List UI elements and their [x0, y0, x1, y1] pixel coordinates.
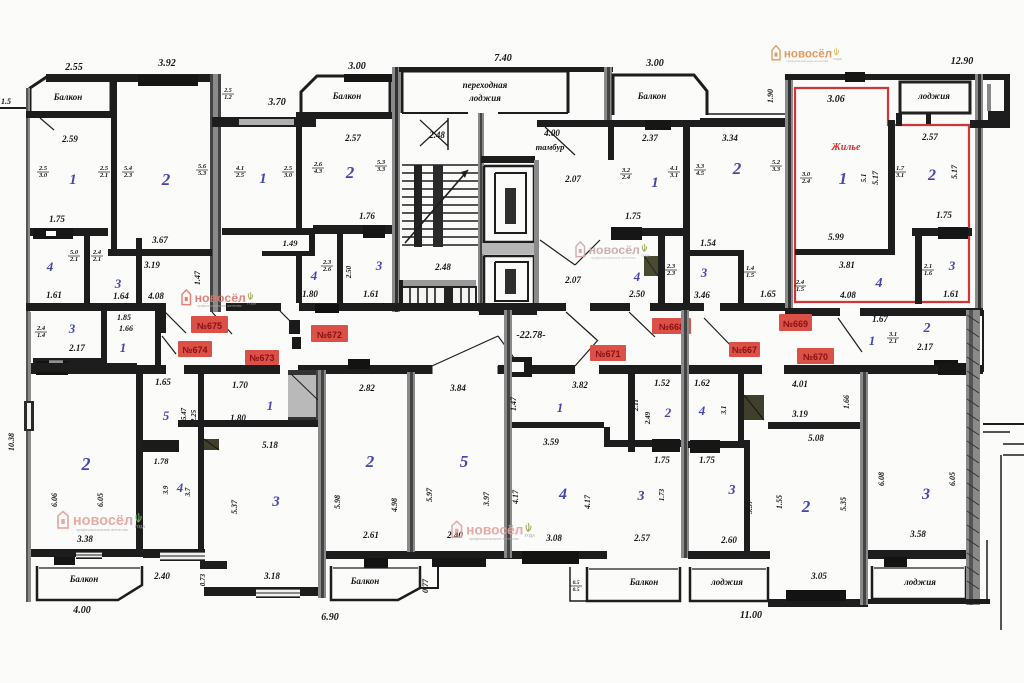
svg-text:2.1: 2.1 [888, 338, 897, 345]
svg-text:1.61: 1.61 [46, 290, 62, 300]
svg-text:2.4: 2.4 [801, 178, 811, 185]
svg-text:1.76: 1.76 [359, 211, 375, 221]
svg-text:5.99: 5.99 [828, 232, 844, 242]
svg-text:4.17: 4.17 [583, 494, 592, 510]
svg-text:2: 2 [732, 159, 742, 178]
svg-text:Жилье: Жилье [831, 142, 861, 153]
svg-text:1.80: 1.80 [302, 289, 318, 299]
svg-text:3.2: 3.2 [621, 167, 631, 174]
svg-text:№670: №670 [803, 352, 828, 362]
svg-text:Балкон: Балкон [629, 577, 659, 587]
svg-text:3.58: 3.58 [909, 529, 926, 539]
svg-text:2.3: 2.3 [322, 259, 332, 266]
svg-text:4.1: 4.1 [669, 165, 678, 172]
svg-text:3.34: 3.34 [721, 133, 738, 143]
svg-text:3.81: 3.81 [838, 260, 855, 270]
svg-text:1.90: 1.90 [766, 89, 775, 103]
svg-text:4.01: 4.01 [791, 379, 808, 389]
svg-text:Балкон: Балкон [53, 92, 83, 102]
svg-text:3.1: 3.1 [895, 172, 904, 179]
svg-text:3.97: 3.97 [482, 491, 491, 507]
svg-text:2.1: 2.1 [92, 256, 101, 263]
svg-text:1: 1 [120, 340, 127, 355]
svg-text:2.5: 2.5 [38, 165, 48, 172]
svg-text:2.82: 2.82 [358, 383, 375, 393]
svg-text:профессиональное агентство: профессиональное агентство [197, 304, 242, 308]
svg-text:3.84: 3.84 [449, 383, 466, 393]
svg-text:2.57: 2.57 [633, 533, 650, 543]
svg-text:11.00: 11.00 [740, 610, 762, 621]
svg-text:ГОДА: ГОДА [135, 525, 146, 529]
svg-text:1.64: 1.64 [113, 291, 129, 301]
svg-text:3: 3 [637, 489, 645, 504]
svg-text:0.5: 0.5 [573, 587, 580, 593]
svg-text:2.5: 2.5 [283, 165, 293, 172]
svg-text:2.61: 2.61 [362, 530, 379, 540]
svg-text:2.5: 2.5 [223, 88, 232, 94]
svg-text:2: 2 [365, 452, 375, 471]
svg-text:профессиональное агентство: профессиональное агентство [591, 256, 636, 260]
svg-text:№673: №673 [249, 353, 274, 363]
svg-text:2.60: 2.60 [720, 535, 737, 545]
svg-text:1.5: 1.5 [796, 286, 805, 293]
svg-text:1.4: 1.4 [37, 332, 46, 339]
svg-text:ГОДА: ГОДА [833, 57, 842, 61]
svg-text:3.92: 3.92 [157, 58, 176, 69]
svg-text:5.17: 5.17 [871, 170, 880, 185]
svg-text:6.05: 6.05 [948, 472, 957, 486]
svg-text:2.59: 2.59 [61, 134, 78, 144]
svg-text:1.70: 1.70 [232, 380, 248, 390]
svg-text:1: 1 [69, 172, 77, 188]
svg-text:2.1: 2.1 [923, 263, 932, 270]
svg-text:6.06: 6.06 [50, 493, 59, 507]
svg-text:1.67: 1.67 [872, 314, 888, 324]
svg-text:2.5: 2.5 [99, 165, 109, 172]
svg-text:5.47: 5.47 [180, 407, 188, 420]
svg-text:1: 1 [869, 333, 876, 348]
svg-text:Балкон: Балкон [350, 576, 380, 586]
svg-text:2.1: 2.1 [99, 172, 108, 179]
svg-text:5.37: 5.37 [230, 499, 239, 514]
svg-text:3.67: 3.67 [151, 235, 168, 245]
svg-text:12.90: 12.90 [951, 56, 974, 67]
svg-text:2.50: 2.50 [345, 265, 353, 279]
svg-text:5.4: 5.4 [124, 165, 133, 172]
svg-text:3.1: 3.1 [888, 331, 897, 338]
svg-text:3.1: 3.1 [720, 406, 728, 416]
svg-text:5.0: 5.0 [70, 249, 79, 256]
svg-text:1.66: 1.66 [842, 395, 851, 409]
svg-text:новосёл: новосёл [73, 513, 133, 529]
svg-text:3: 3 [921, 486, 930, 503]
svg-text:3.3: 3.3 [771, 166, 781, 173]
svg-text:1.75: 1.75 [699, 455, 715, 465]
svg-text:2.1: 2.1 [69, 256, 78, 263]
svg-text:1.75: 1.75 [625, 211, 641, 221]
svg-text:3.9: 3.9 [162, 485, 170, 495]
svg-text:2.3: 2.3 [123, 172, 133, 179]
svg-text:3.0: 3.0 [801, 171, 811, 178]
svg-text:3: 3 [68, 321, 76, 336]
svg-text:1: 1 [839, 169, 848, 188]
svg-text:1.49: 1.49 [283, 238, 299, 248]
svg-text:ГОДА: ГОДА [641, 254, 651, 258]
svg-text:2.48: 2.48 [434, 262, 451, 272]
svg-text:3.05: 3.05 [810, 571, 827, 581]
svg-text:5.18: 5.18 [262, 440, 278, 450]
svg-text:2.17: 2.17 [916, 342, 933, 352]
svg-text:2.6: 2.6 [322, 266, 332, 273]
svg-text:Балкон: Балкон [637, 91, 667, 101]
svg-text:лоджия: лоджия [468, 93, 501, 103]
svg-text:4.3: 4.3 [313, 168, 323, 175]
svg-text:3.19: 3.19 [143, 260, 160, 270]
svg-text:3.46: 3.46 [693, 290, 710, 300]
svg-text:4: 4 [46, 259, 54, 274]
svg-text:5.35: 5.35 [839, 497, 848, 511]
svg-text:1.4: 1.4 [746, 265, 755, 272]
svg-text:лоджия: лоджия [710, 577, 743, 587]
svg-text:4.5: 4.5 [695, 170, 705, 177]
svg-text:5.1: 5.1 [860, 174, 868, 183]
svg-text:3.18: 3.18 [263, 571, 280, 581]
svg-text:5.6: 5.6 [198, 163, 207, 170]
svg-text:2.49: 2.49 [644, 411, 652, 425]
svg-text:ГОДА: ГОДА [247, 302, 257, 306]
svg-text:3.3: 3.3 [376, 166, 386, 173]
svg-text:1: 1 [267, 398, 274, 413]
svg-text:2.37: 2.37 [641, 133, 658, 143]
svg-text:№668: №668 [659, 322, 684, 332]
svg-text:1.61: 1.61 [363, 289, 379, 299]
svg-text:7.40: 7.40 [494, 53, 512, 64]
svg-text:№669: №669 [783, 319, 808, 329]
svg-text:3.0: 3.0 [283, 172, 293, 179]
svg-text:4.98: 4.98 [390, 498, 399, 513]
svg-text:4: 4 [176, 480, 184, 495]
svg-text:0.77: 0.77 [421, 578, 430, 593]
svg-text:3: 3 [375, 258, 383, 273]
svg-text:профессиональное агентство: профессиональное агентство [76, 528, 128, 532]
svg-text:4.08: 4.08 [839, 290, 856, 300]
svg-text:10.38: 10.38 [7, 433, 16, 451]
svg-text:5.98: 5.98 [333, 495, 342, 509]
svg-text:2.6: 2.6 [313, 161, 323, 168]
svg-text:0.73: 0.73 [199, 573, 207, 586]
svg-text:2.4: 2.4 [621, 174, 631, 181]
svg-text:1: 1 [557, 400, 564, 415]
svg-text:3: 3 [728, 483, 736, 498]
svg-text:3.08: 3.08 [545, 533, 562, 543]
svg-text:3.00: 3.00 [645, 58, 664, 69]
svg-text:1.73: 1.73 [658, 488, 666, 501]
svg-text:5: 5 [163, 408, 170, 423]
svg-text:1.61: 1.61 [943, 289, 959, 299]
svg-text:новосёл: новосёл [195, 291, 246, 305]
svg-text:2.55: 2.55 [64, 62, 83, 73]
svg-text:3.06: 3.06 [826, 94, 845, 105]
svg-text:1: 1 [651, 175, 659, 191]
svg-text:2.4: 2.4 [795, 279, 805, 286]
svg-text:1.65: 1.65 [760, 289, 776, 299]
svg-text:3.00: 3.00 [347, 61, 366, 72]
svg-text:1.75: 1.75 [49, 214, 65, 224]
svg-text:4.17: 4.17 [511, 489, 520, 505]
svg-text:2.4: 2.4 [92, 249, 102, 256]
svg-text:4: 4 [875, 276, 883, 291]
svg-text:№671: №671 [595, 349, 620, 359]
svg-text:2.50: 2.50 [628, 289, 645, 299]
svg-text:5.2: 5.2 [772, 159, 781, 166]
svg-text:3.3: 3.3 [695, 163, 705, 170]
svg-text:3: 3 [114, 276, 122, 291]
svg-text:4.00: 4.00 [72, 605, 91, 616]
svg-text:1.66: 1.66 [119, 324, 133, 333]
svg-text:2.11: 2.11 [632, 399, 640, 412]
svg-text:1.65: 1.65 [155, 377, 171, 387]
svg-text:ГОДА: ГОДА [525, 534, 535, 538]
svg-text:4: 4 [558, 486, 567, 503]
svg-text:1.47: 1.47 [509, 396, 518, 411]
svg-text:2: 2 [801, 497, 811, 516]
svg-text:3.70: 3.70 [267, 97, 286, 108]
svg-text:5: 5 [460, 452, 469, 471]
svg-text:1.2: 1.2 [224, 95, 232, 101]
svg-text:№674: №674 [182, 345, 207, 355]
svg-text:-22.78-: -22.78- [516, 330, 545, 341]
svg-text:2: 2 [81, 454, 91, 474]
svg-text:6.90: 6.90 [321, 612, 339, 623]
svg-text:1.55: 1.55 [775, 495, 784, 509]
svg-text:2.3: 2.3 [666, 270, 676, 277]
svg-text:1.6: 1.6 [924, 270, 933, 277]
svg-text:3.82: 3.82 [571, 380, 588, 390]
svg-text:Балкон: Балкон [69, 574, 99, 584]
svg-text:1.7: 1.7 [896, 165, 905, 172]
svg-text:3: 3 [700, 265, 708, 280]
svg-text:3.38: 3.38 [76, 534, 93, 544]
svg-text:2.57: 2.57 [344, 133, 361, 143]
svg-text:3.7: 3.7 [184, 487, 192, 497]
svg-text:1.47: 1.47 [193, 270, 202, 285]
svg-text:5.08: 5.08 [808, 433, 824, 443]
svg-text:2: 2 [161, 170, 171, 189]
svg-text:4.08: 4.08 [147, 291, 164, 301]
svg-text:№675: №675 [197, 321, 222, 331]
svg-text:0.5: 0.5 [573, 580, 580, 586]
svg-text:1.52: 1.52 [654, 378, 670, 388]
svg-text:2: 2 [923, 321, 931, 336]
svg-text:1.75: 1.75 [936, 210, 952, 220]
svg-text:новосёл: новосёл [466, 522, 523, 537]
svg-text:Балкон: Балкон [332, 91, 362, 101]
svg-text:профессиональное агентство: профессиональное агентство [786, 59, 828, 63]
svg-text:лоджия: лоджия [917, 91, 950, 101]
svg-text:2.17: 2.17 [68, 343, 85, 353]
svg-text:2.57: 2.57 [921, 132, 938, 142]
svg-text:5.3: 5.3 [377, 159, 386, 166]
svg-text:5.97: 5.97 [425, 487, 434, 502]
svg-text:6.08: 6.08 [877, 472, 886, 486]
svg-text:2: 2 [927, 167, 936, 184]
svg-text:1.54: 1.54 [700, 238, 716, 248]
svg-text:2.40: 2.40 [153, 571, 170, 581]
svg-text:переходная: переходная [463, 80, 508, 90]
svg-text:2: 2 [345, 163, 355, 182]
svg-text:1.5: 1.5 [1, 97, 11, 106]
svg-text:1.85: 1.85 [117, 313, 131, 322]
svg-text:№672: №672 [317, 330, 342, 340]
svg-text:1.5: 1.5 [746, 272, 755, 279]
svg-text:5.3: 5.3 [198, 170, 207, 177]
svg-text:профессиональное агентство: профессиональное агентство [469, 537, 519, 541]
svg-text:4.1: 4.1 [235, 165, 244, 172]
svg-text:3.0: 3.0 [38, 172, 48, 179]
svg-text:3.1: 3.1 [669, 172, 678, 179]
svg-text:2.4: 2.4 [36, 325, 46, 332]
svg-text:6.05: 6.05 [96, 493, 105, 507]
svg-text:4: 4 [633, 269, 641, 284]
svg-text:тамбур: тамбур [536, 142, 565, 152]
svg-text:2.5: 2.5 [235, 172, 245, 179]
svg-text:1.75: 1.75 [654, 455, 670, 465]
svg-text:2.07: 2.07 [564, 275, 581, 285]
svg-text:3.19: 3.19 [791, 409, 808, 419]
svg-text:5.17: 5.17 [950, 164, 959, 179]
svg-text:новосёл: новосёл [589, 243, 640, 257]
svg-text:3.59: 3.59 [542, 437, 559, 447]
svg-text:№667: №667 [732, 345, 757, 355]
svg-text:1: 1 [259, 171, 267, 187]
svg-text:3: 3 [948, 258, 956, 273]
svg-text:3: 3 [271, 494, 280, 510]
svg-text:4: 4 [698, 403, 706, 418]
svg-text:2.07: 2.07 [564, 174, 581, 184]
svg-text:2.3: 2.3 [666, 263, 676, 270]
svg-text:4: 4 [310, 268, 318, 283]
svg-text:2: 2 [664, 405, 672, 420]
svg-text:1.62: 1.62 [694, 378, 710, 388]
svg-text:1.78: 1.78 [154, 456, 170, 466]
svg-text:лоджия: лоджия [903, 577, 936, 587]
